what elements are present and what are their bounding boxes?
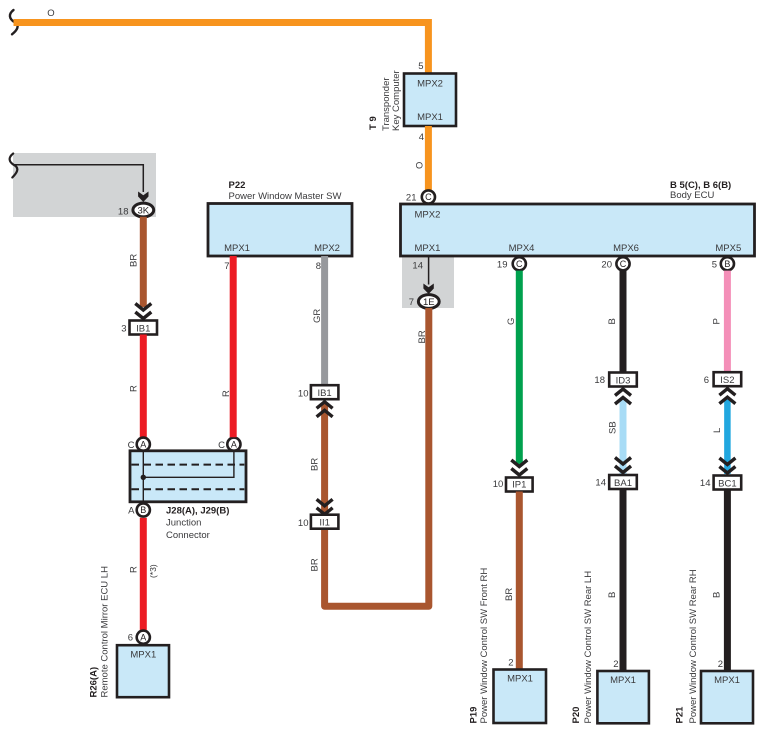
svg-text:B: B	[140, 505, 146, 515]
svg-text:10: 10	[493, 479, 504, 490]
label O rotated	[415, 162, 426, 169]
gray highlight zone under body ECU pin 14	[402, 257, 454, 308]
wire internal thin to 3K	[14, 165, 143, 192]
svg-text:A: A	[140, 439, 146, 449]
svg-text:R: R	[221, 390, 232, 397]
chevrons out of IB1	[317, 402, 333, 417]
svg-text:6: 6	[704, 375, 709, 386]
svg-text:MPX1: MPX1	[130, 650, 156, 661]
label P	[712, 318, 723, 324]
svg-text:A: A	[231, 439, 237, 449]
svg-text:MPX2: MPX2	[314, 243, 340, 254]
svg-text:10: 10	[298, 389, 309, 400]
svg-text:IP1: IP1	[512, 480, 526, 491]
svg-text:19: 19	[497, 260, 508, 271]
svg-text:P21: P21	[675, 706, 686, 724]
junction box IS2 pin 6	[714, 372, 742, 386]
label B	[607, 592, 618, 598]
junction node dot	[141, 475, 146, 480]
svg-text:MPX6: MPX6	[613, 243, 639, 254]
junction connector J28 J29 box	[130, 451, 246, 502]
svg-text:BR: BR	[128, 254, 139, 267]
svg-text:MPX1: MPX1	[415, 243, 441, 254]
wire BR IP1 to P19	[516, 492, 523, 670]
label P20 vertical	[571, 571, 594, 724]
svg-text:2: 2	[613, 659, 618, 670]
wire BR IB1 to II1	[321, 403, 328, 516]
label R	[129, 566, 140, 573]
svg-text:4: 4	[419, 132, 424, 143]
pin 5 label	[418, 61, 423, 72]
continuation squiggle left	[10, 154, 18, 178]
label T 9 vertical	[368, 70, 402, 131]
svg-text:(*3): (*3)	[148, 564, 158, 578]
label BR	[309, 458, 320, 471]
pin 3 label	[121, 324, 126, 335]
pin 14 label BC1	[700, 478, 711, 489]
svg-text:MPX5: MPX5	[715, 243, 741, 254]
label R	[221, 390, 232, 397]
svg-text:A: A	[128, 505, 135, 516]
pin 7 label P22	[224, 261, 229, 272]
R26 remote control mirror ECU box	[117, 645, 169, 697]
continuation squiggle top left	[10, 10, 18, 34]
junction box IB1 pin 3	[130, 321, 158, 335]
label A bottom	[128, 505, 135, 516]
pin 4 label	[419, 132, 424, 143]
wire internal thin pin14	[428, 256, 430, 285]
arrow into 3K	[138, 192, 148, 203]
wire B BA1 to P20	[620, 489, 627, 671]
svg-text:R26(A): R26(A)	[89, 667, 100, 698]
svg-text:14: 14	[412, 261, 423, 272]
svg-text:MPX1: MPX1	[714, 675, 740, 686]
wire BR 3K to IB1	[140, 217, 147, 307]
svg-text:10: 10	[298, 518, 309, 529]
svg-text:SB: SB	[608, 421, 619, 434]
svg-text:R: R	[129, 566, 140, 573]
svg-text:Junction: Junction	[166, 518, 201, 529]
connector circle C pin 19	[513, 257, 526, 270]
svg-text:Power Window Control SW Front: Power Window Control SW Front RH	[479, 568, 490, 724]
label GR	[312, 309, 323, 323]
svg-text:MPX2: MPX2	[415, 210, 441, 221]
connector oval 3K	[133, 203, 154, 217]
chevrons into II1	[317, 499, 333, 514]
pin 10 label II1	[298, 518, 309, 529]
pin 2 label P21	[718, 659, 723, 670]
pin 19 label	[497, 260, 508, 271]
label BR below II1	[309, 558, 320, 571]
svg-text:C: C	[516, 259, 523, 269]
svg-text:O: O	[47, 8, 54, 19]
svg-text:P22: P22	[229, 180, 246, 191]
label G	[506, 318, 517, 325]
svg-text:7: 7	[409, 297, 414, 308]
wire B MPX6 to ID3	[620, 271, 627, 373]
svg-text:C: C	[425, 192, 432, 202]
body ECU box	[401, 204, 755, 256]
svg-text:P19: P19	[469, 707, 480, 724]
label B	[607, 318, 618, 324]
svg-text:1E: 1E	[423, 297, 435, 308]
pin 2 label P20	[613, 659, 618, 670]
pin 18 label ID3	[594, 375, 605, 386]
dashed bus lines	[132, 465, 245, 490]
svg-text:5: 5	[418, 61, 423, 72]
svg-text:MPX1: MPX1	[507, 674, 533, 685]
label BR right segment	[417, 330, 428, 343]
svg-text:C: C	[218, 440, 225, 451]
label B 5(C), B 6(B) Body ECU	[670, 180, 731, 201]
svg-text:GR: GR	[312, 309, 323, 323]
label B	[712, 592, 723, 598]
svg-text:C: C	[128, 440, 135, 451]
pin 6 label	[128, 633, 133, 644]
svg-text:P: P	[712, 318, 723, 324]
svg-text:B: B	[724, 259, 730, 269]
svg-text:Power Window Control SW Rear R: Power Window Control SW Rear RH	[688, 569, 699, 723]
wire B BC1 to P21	[724, 490, 731, 672]
label P19 vertical	[469, 568, 491, 724]
pin 21 label	[406, 193, 417, 204]
svg-text:MPX2: MPX2	[417, 79, 443, 90]
label O	[47, 8, 54, 19]
label BR	[128, 254, 139, 267]
svg-text:6: 6	[128, 633, 133, 644]
internal wires junction	[143, 451, 234, 504]
svg-text:21: 21	[406, 193, 417, 204]
svg-text:5: 5	[712, 260, 717, 271]
wire P MPX5 to IS2	[724, 271, 731, 373]
svg-text:C: C	[620, 259, 627, 269]
svg-text:18: 18	[594, 375, 605, 386]
junction box BA1 pin 14	[609, 475, 637, 489]
label J28(A) J29(B) junction connector	[166, 506, 229, 542]
wire L IS2 to BC1	[724, 399, 731, 474]
svg-text:IB1: IB1	[136, 324, 150, 335]
chevrons into IB1	[135, 304, 151, 319]
chevrons into IP1	[511, 460, 527, 475]
svg-text:2: 2	[508, 658, 513, 669]
label R26(A) vertical	[89, 566, 111, 698]
wire R IB1 to junction connector	[140, 335, 147, 438]
connector circle A right	[227, 438, 240, 451]
wire GR P22 to IB1	[321, 256, 328, 385]
connector oval 1E	[418, 295, 439, 309]
svg-text:Body ECU: Body ECU	[670, 190, 714, 201]
arrow into 1E	[423, 284, 433, 295]
pin 14 label BA1	[595, 478, 606, 489]
pin 14 label	[412, 261, 423, 272]
connector circle A left	[137, 438, 150, 451]
junction box II1 pin 10	[311, 515, 339, 529]
svg-text:R: R	[129, 385, 140, 392]
svg-text:Power Window Control SW Rear L: Power Window Control SW Rear LH	[583, 571, 594, 724]
junction box BC1 pin 14	[714, 476, 742, 490]
P19 power window control SW front RH box	[494, 670, 547, 724]
pin 10 label IP1	[493, 479, 504, 490]
svg-text:14: 14	[700, 478, 711, 489]
svg-text:BR: BR	[417, 330, 428, 343]
connector circle B pin 5	[721, 257, 734, 270]
pin 18 label	[118, 207, 129, 218]
svg-text:BR: BR	[504, 588, 515, 601]
svg-text:B: B	[712, 592, 723, 598]
chevrons into BA1	[615, 458, 631, 473]
svg-text:8: 8	[316, 261, 321, 272]
label C left	[128, 440, 135, 451]
svg-text:Remote Control Mirror ECU LH: Remote Control Mirror ECU LH	[100, 566, 111, 698]
label P22	[229, 180, 342, 202]
svg-text:MPX1: MPX1	[610, 675, 636, 686]
svg-text:MPX4: MPX4	[509, 243, 535, 254]
svg-text:T 9: T 9	[368, 116, 379, 130]
wire BR from 1E down, left, up to II1	[325, 308, 429, 606]
P21 power window control SW rear RH box	[701, 671, 753, 723]
svg-text:J28(A), J29(B): J28(A), J29(B)	[166, 506, 229, 517]
svg-text:O: O	[415, 162, 426, 169]
pin 7 label	[409, 297, 414, 308]
svg-text:II1: II1	[319, 518, 330, 529]
wire R junction to R26	[140, 518, 147, 631]
svg-text:Key Computer: Key Computer	[391, 70, 402, 131]
connector circle B	[137, 503, 150, 516]
label L	[712, 428, 723, 433]
svg-text:BC1: BC1	[718, 479, 736, 490]
junction box ID3 pin 18	[609, 373, 637, 387]
pin 5 label MPX5	[712, 260, 717, 271]
svg-text:14: 14	[595, 478, 606, 489]
svg-text:MPX1: MPX1	[224, 243, 250, 254]
wire G	[516, 271, 523, 465]
svg-text:MPX1: MPX1	[417, 112, 443, 123]
pin 10 label	[298, 389, 309, 400]
svg-text:P20: P20	[571, 707, 582, 724]
svg-text:B: B	[607, 318, 618, 324]
label R	[129, 385, 140, 392]
svg-text:3K: 3K	[137, 205, 149, 216]
connector circle A R26	[137, 631, 150, 644]
svg-text:BR: BR	[309, 558, 320, 571]
P22 power window master SW box	[208, 204, 352, 257]
svg-text:3: 3	[121, 324, 126, 335]
svg-text:7: 7	[224, 261, 229, 272]
svg-text:B: B	[607, 592, 618, 598]
connector circle C pin 20	[616, 257, 629, 270]
chevrons into BC1	[719, 458, 735, 473]
wire R P22 to junction	[230, 256, 237, 437]
pin 20 label	[601, 260, 612, 271]
svg-text:L: L	[712, 428, 723, 433]
label P21 vertical	[675, 569, 700, 723]
connector circle C pin 21	[422, 190, 435, 203]
label SB	[608, 421, 619, 434]
pin 8 label P22	[316, 261, 321, 272]
junction box IP1 pin 10	[506, 478, 533, 492]
label (*3)	[148, 564, 158, 578]
svg-text:2: 2	[718, 659, 723, 670]
pin 2 label P19	[508, 658, 513, 669]
gray highlight zone left	[13, 153, 156, 217]
wire O horizontal + down to T9	[14, 23, 429, 74]
T9 transponder key computer box	[404, 74, 456, 127]
chevrons out of ID3	[615, 389, 631, 404]
label C right	[218, 440, 225, 451]
svg-text:BR: BR	[309, 458, 320, 471]
wire SB ID3 to BA1	[620, 399, 627, 474]
junction box IB1 pin 10	[311, 385, 339, 399]
P20 power window control SW rear LH box	[597, 671, 649, 723]
svg-text:ID3: ID3	[616, 376, 631, 387]
wire O vertical T9 to body ECU	[425, 126, 432, 191]
label BR	[504, 588, 515, 601]
svg-text:20: 20	[601, 260, 612, 271]
chevrons out of IS2	[719, 389, 735, 404]
svg-text:BA1: BA1	[614, 478, 632, 489]
svg-text:Power Window Master SW: Power Window Master SW	[229, 191, 342, 202]
svg-text:A: A	[140, 632, 146, 642]
svg-text:Connector: Connector	[166, 530, 210, 541]
svg-text:18: 18	[118, 207, 129, 218]
pin 6 label IS2	[704, 375, 709, 386]
svg-text:IS2: IS2	[720, 375, 734, 386]
svg-text:G: G	[506, 318, 517, 325]
svg-text:IB1: IB1	[317, 388, 331, 399]
